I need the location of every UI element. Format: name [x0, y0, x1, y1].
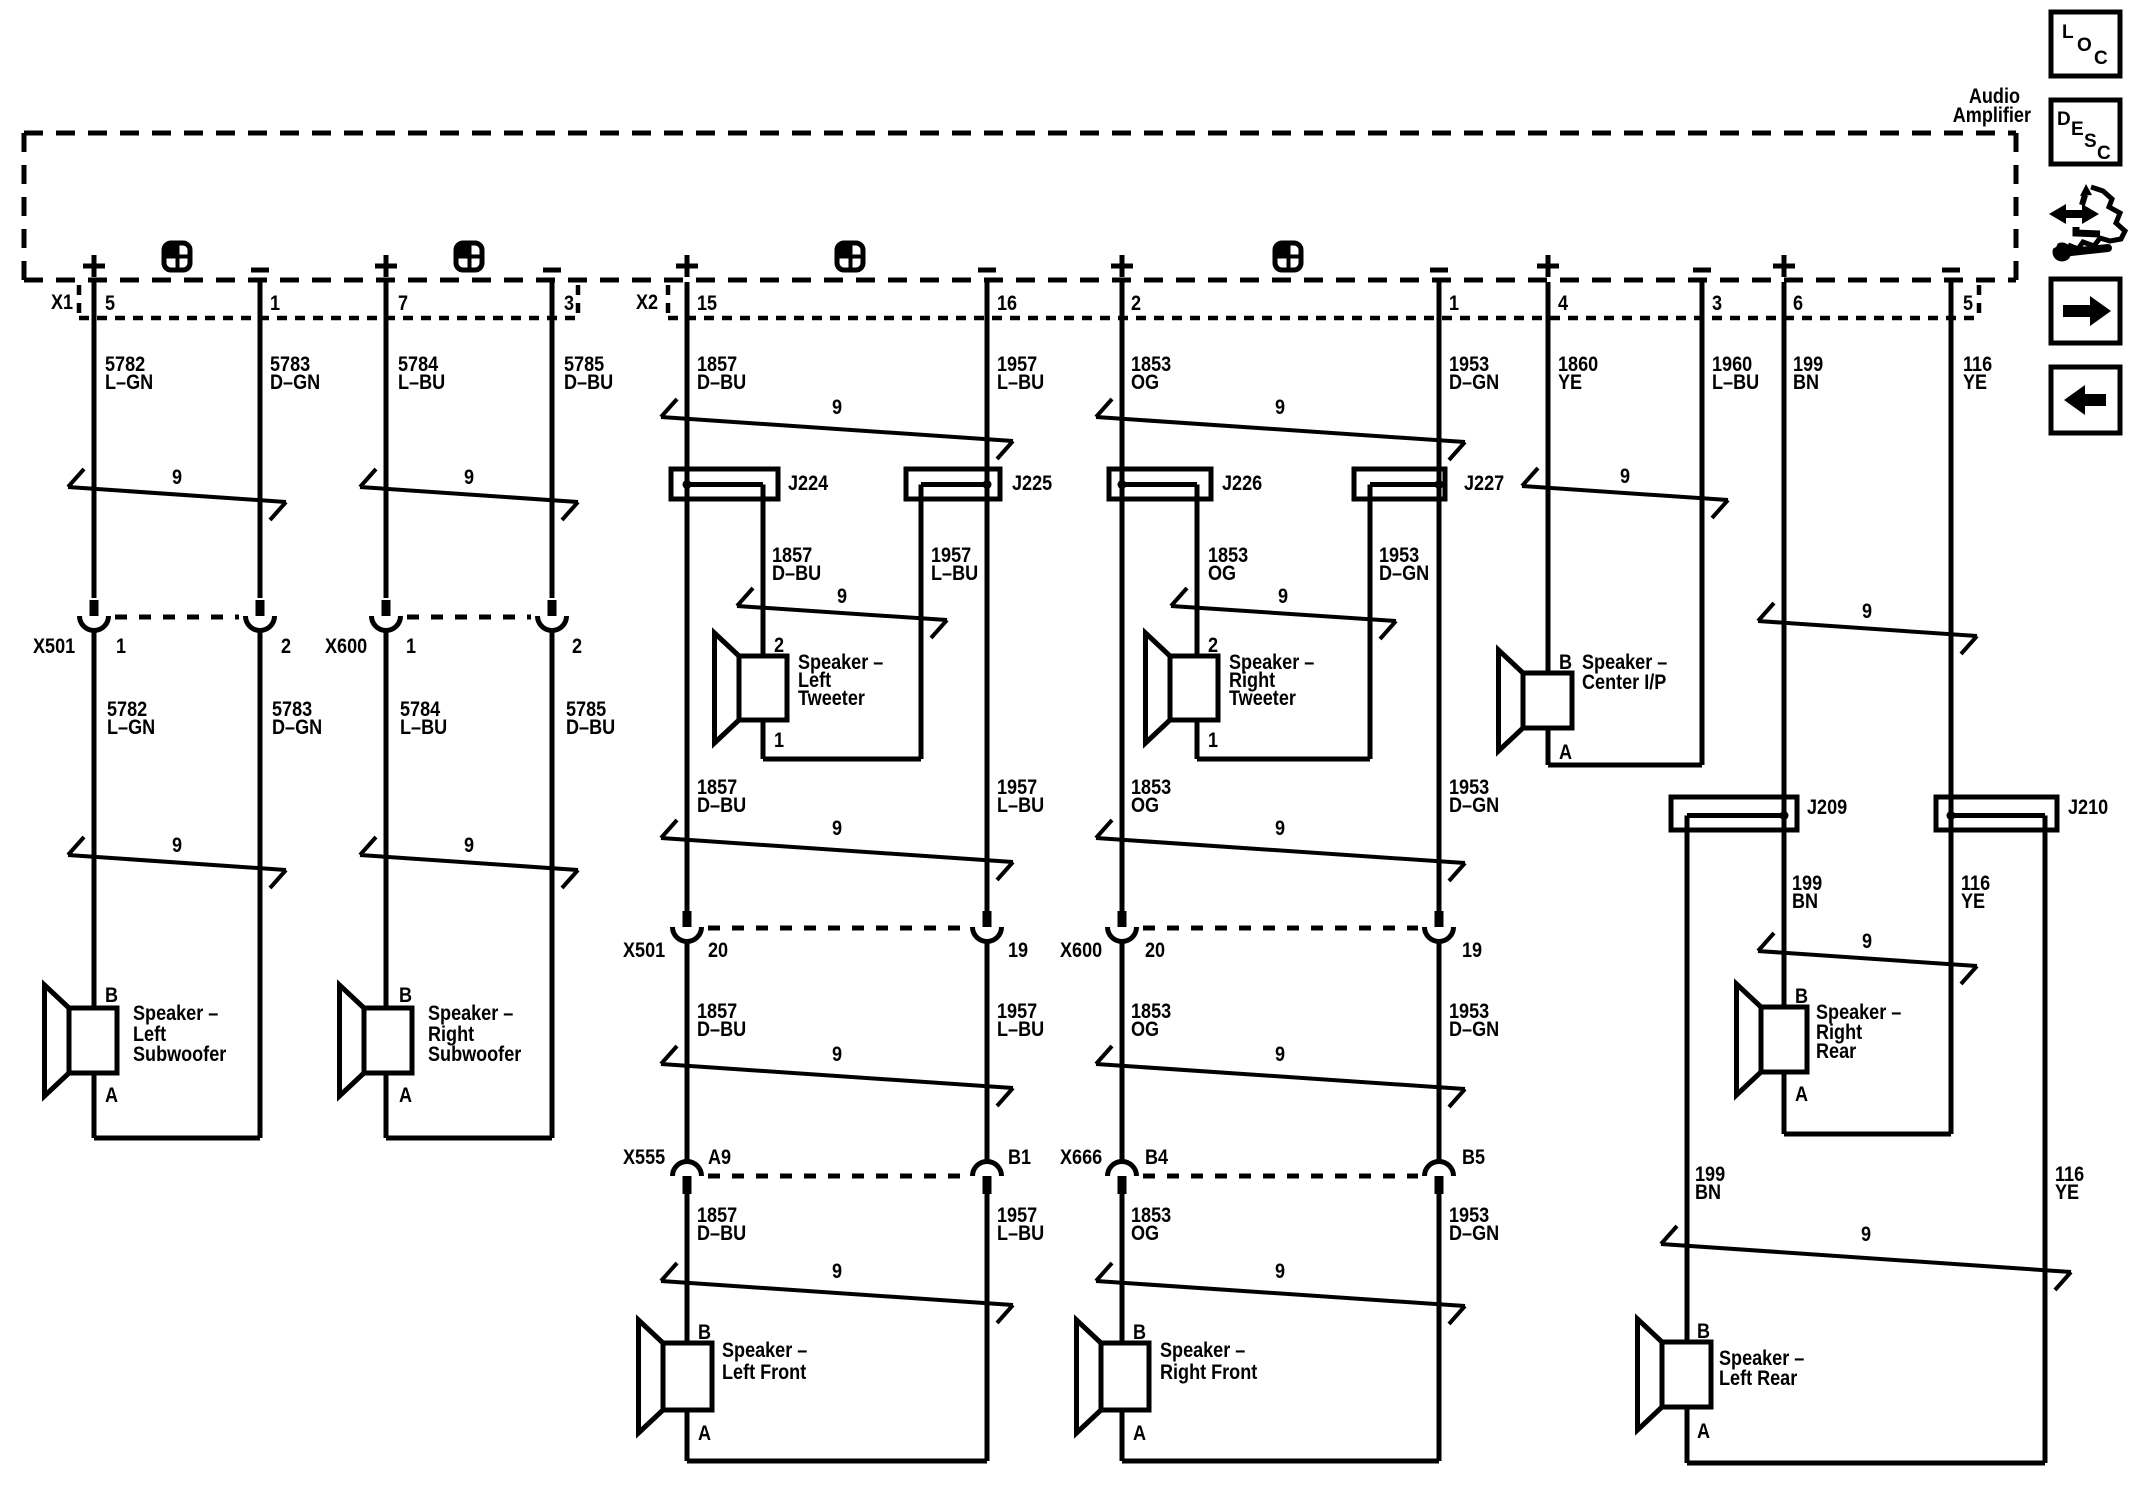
inline connector X600 pin 2 terminal: [538, 600, 567, 631]
amplifier channel grid symbol at x=469: [456, 243, 482, 270]
speaker - left subwoofer symbol: [45, 985, 118, 1096]
splice J209: [1671, 797, 1797, 830]
twisted pair circuit 9 (1853/1953 above X600): [1096, 820, 1465, 881]
svg-text:A: A: [399, 1084, 412, 1108]
wire from amplifier at x=687 (upper segment): [685, 282, 690, 470]
splice J226: [1109, 469, 1211, 499]
svg-text:9: 9: [1278, 585, 1288, 609]
twisted pair circuit 9 (199/116 upper): [1758, 603, 1977, 654]
right subwoofer terminal A wire down: [384, 1073, 389, 1138]
svg-text:9: 9: [1275, 1260, 1285, 1284]
svg-text:9: 9: [1275, 1043, 1285, 1067]
wire 116 segment through J210 to right rear speaker loop: [1949, 470, 1954, 1134]
inline connector X501 pin 20 terminal: [673, 911, 702, 941]
right front terminal A wire down: [1120, 1410, 1125, 1461]
wire 1960 segment to center speaker loop: [1700, 470, 1705, 765]
svg-text:YE: YE: [1558, 371, 1582, 395]
center speaker loop bottom wire: [1548, 763, 1702, 768]
amplifier output + mark at x=1784: [1773, 255, 1795, 277]
svg-text:L–BU: L–BU: [931, 562, 978, 586]
twisted pair circuit 9 (left tweeter): [737, 588, 947, 638]
svg-text:9: 9: [172, 834, 182, 858]
svg-text:B: B: [698, 1321, 711, 1345]
inline connector X600 pin 20 terminal: [1108, 911, 1137, 941]
wire 5783 to left subwoofer loop: [258, 630, 263, 1138]
inline connector X501 (front) dashed line: [708, 926, 966, 931]
connector X2 dotted strip: [668, 285, 1979, 318]
wire from amplifier at x=1122 (upper segment): [1120, 282, 1125, 470]
twisted pair circuit 9 (5782/5783 lower): [68, 837, 286, 888]
svg-text:9: 9: [832, 396, 842, 420]
right rear loop bottom wire: [1784, 1132, 1951, 1137]
wire from amplifier at x=1439 (upper segment): [1437, 282, 1442, 470]
branch wire 1857 from J224 to left tweeter pin 2: [761, 485, 766, 657]
svg-text:1: 1: [406, 635, 416, 659]
svg-text:20: 20: [708, 939, 728, 963]
wire 1957 to left front speaker loop: [985, 1194, 990, 1461]
twisted pair circuit 9 (5784/5785 lower): [360, 837, 578, 888]
left front terminal A wire down: [685, 1410, 690, 1461]
svg-text:B1: B1: [1008, 1146, 1031, 1170]
svg-text:9: 9: [1620, 465, 1630, 489]
inline connector X501 pin 1 terminal: [80, 600, 109, 631]
svg-text:2: 2: [1131, 292, 1141, 316]
svg-text:B4: B4: [1145, 1146, 1168, 1170]
inline connector X501 pin 19 terminal: [973, 911, 1002, 941]
svg-text:7: 7: [398, 292, 408, 316]
svg-text:Speaker –: Speaker –: [1160, 1339, 1245, 1363]
svg-text:Left Rear: Left Rear: [1719, 1367, 1797, 1391]
wire from amplifier at x=94 (upper segment): [92, 282, 97, 470]
svg-text:B: B: [1697, 1320, 1710, 1344]
svg-text:X2: X2: [636, 291, 658, 315]
svg-text:S: S: [2084, 131, 2097, 152]
svg-text:X1: X1: [51, 291, 73, 315]
svg-text:L–BU: L–BU: [1712, 371, 1759, 395]
branch wire 199 from J209 to left rear speaker B: [1685, 816, 1690, 1343]
amplifier output + mark at x=1122: [1111, 255, 1133, 277]
svg-text:D–GN: D–GN: [1449, 794, 1499, 818]
svg-text:J209: J209: [1807, 796, 1847, 820]
svg-text:C: C: [2097, 143, 2111, 164]
svg-text:Subwoofer: Subwoofer: [133, 1043, 227, 1067]
svg-text:X501: X501: [33, 635, 75, 659]
svg-text:BN: BN: [1695, 1181, 1721, 1205]
wire from amplifier at x=260 (upper segment): [258, 282, 263, 470]
inline connector X600 (subwoofer) dashed line: [407, 615, 531, 620]
speaker - right front symbol: [1077, 1320, 1150, 1433]
twisted pair circuit 9 (1860/1960): [1522, 468, 1728, 518]
back arrow navigation box: [2051, 367, 2120, 433]
svg-text:C: C: [2094, 48, 2108, 69]
inline connector X501 (subwoofer) dashed line: [115, 615, 239, 620]
svg-text:B: B: [1559, 651, 1572, 675]
svg-text:9: 9: [464, 466, 474, 490]
amplifier output + mark at x=94: [83, 255, 105, 277]
Audio Amplifier component dashed outline: [24, 133, 2016, 280]
svg-text:E: E: [2071, 119, 2084, 140]
wire 5782 to left subwoofer B: [92, 630, 97, 1008]
twisted pair circuit 9 (right tweeter): [1171, 588, 1396, 639]
svg-text:3: 3: [1712, 292, 1722, 316]
svg-text:9: 9: [832, 1260, 842, 1284]
svg-text:9: 9: [832, 817, 842, 841]
svg-text:B: B: [105, 984, 118, 1008]
svg-text:J224: J224: [788, 472, 828, 496]
wire from amplifier at x=1951 (upper segment): [1949, 282, 1954, 470]
splice J210: [1936, 797, 2057, 830]
amplifier channel grid symbol at x=850: [837, 243, 863, 270]
wire 5782 segment to X501: [92, 470, 97, 598]
svg-text:YE: YE: [1963, 371, 1987, 395]
svg-text:D–GN: D–GN: [272, 716, 322, 740]
twisted pair circuit 9 (1853/1953 upper): [1096, 399, 1465, 460]
wire 1857 to left front speaker B: [685, 1194, 690, 1343]
svg-text:Speaker –: Speaker –: [722, 1339, 807, 1363]
svg-text:Tweeter: Tweeter: [798, 687, 865, 711]
svg-text:Center I/P: Center I/P: [1582, 671, 1666, 695]
wire from amplifier at x=552 (upper segment): [550, 282, 555, 470]
wire from amplifier at x=1548 (upper segment): [1546, 282, 1551, 470]
svg-text:D: D: [2057, 109, 2071, 130]
wire 1953 segment through J227 to X600: [1437, 470, 1442, 912]
svg-text:B5: B5: [1462, 1146, 1485, 1170]
inline connector X666 pin B5 terminal: [1425, 1162, 1454, 1195]
left rear loop bottom wire: [1687, 1461, 2045, 1466]
wire from amplifier at x=1702 (upper segment): [1700, 282, 1705, 470]
svg-text:L: L: [2062, 22, 2074, 43]
twisted pair circuit 9 (right front): [1096, 1263, 1465, 1324]
speaker - center I/P symbol: [1499, 650, 1573, 751]
amplifier output − mark at x=552: [543, 268, 561, 273]
branch wire 116 from J210 to left rear speaker loop: [2043, 816, 2048, 1464]
amplifier output + mark at x=1548: [1537, 255, 1559, 277]
wire 5783 segment to X501: [258, 470, 263, 598]
svg-text:16: 16: [997, 292, 1017, 316]
wire 1853 between X600 and X666: [1120, 941, 1125, 1162]
svg-text:B: B: [399, 984, 412, 1008]
svg-text:YE: YE: [2055, 1181, 2079, 1205]
svg-text:2: 2: [281, 635, 291, 659]
amplifier channel grid symbol at x=177: [164, 243, 190, 270]
twisted pair circuit 9 (1857/1957 upper): [661, 399, 1013, 459]
wire 1853 segment through J226 to X600: [1120, 470, 1125, 912]
wire 1957 between X501 and X555: [985, 941, 990, 1162]
svg-text:BN: BN: [1792, 890, 1818, 914]
amplifier output − mark at x=1951: [1942, 268, 1960, 273]
inline connector X501 pin 2 terminal: [246, 600, 275, 631]
svg-text:1: 1: [1449, 292, 1459, 316]
svg-text:9: 9: [1861, 1223, 1871, 1247]
svg-text:OG: OG: [1131, 794, 1159, 818]
svg-text:9: 9: [1862, 930, 1872, 954]
right front loop bottom wire: [1122, 1459, 1439, 1464]
wire 5785 to right subwoofer loop: [550, 630, 555, 1138]
splice J225: [906, 469, 1000, 499]
svg-text:X555: X555: [623, 1146, 665, 1170]
svg-text:J227: J227: [1464, 472, 1504, 496]
svg-text:X600: X600: [325, 635, 367, 659]
svg-text:X666: X666: [1060, 1146, 1102, 1170]
connector X1 dotted strip: [79, 285, 578, 318]
inline connector X555 pin B1 terminal: [973, 1162, 1002, 1195]
twisted pair circuit 9 (1857/1957 above X501): [661, 820, 1013, 880]
inline connector X555 pin A9 terminal: [673, 1162, 702, 1195]
svg-text:1: 1: [116, 635, 126, 659]
svg-text:L–BU: L–BU: [997, 371, 1044, 395]
svg-text:O: O: [2077, 35, 2092, 56]
svg-text:A: A: [1559, 741, 1572, 765]
svg-text:D–GN: D–GN: [1449, 1018, 1499, 1042]
svg-text:19: 19: [1008, 939, 1028, 963]
svg-text:L–BU: L–BU: [997, 1018, 1044, 1042]
svg-text:A: A: [698, 1422, 711, 1446]
speaker - right tweeter symbol: [1146, 633, 1219, 743]
svg-text:J226: J226: [1222, 472, 1262, 496]
wire from amplifier at x=987 (upper segment): [985, 282, 990, 470]
left tweeter loop bottom wire: [763, 757, 921, 762]
svg-text:OG: OG: [1131, 371, 1159, 395]
branch wire 1853 from J226 to right tweeter pin 2: [1195, 485, 1200, 657]
amplifier output + mark at x=386: [375, 255, 397, 277]
svg-text:A: A: [1697, 1420, 1710, 1444]
right tweeter pin 1 wire down: [1195, 720, 1200, 759]
svg-text:3: 3: [564, 292, 574, 316]
svg-text:Right Front: Right Front: [1160, 1361, 1258, 1385]
svg-text:B: B: [1133, 1321, 1146, 1345]
svg-text:Left Front: Left Front: [722, 1361, 807, 1385]
svg-text:9: 9: [1862, 600, 1872, 624]
amplifier output − mark at x=260: [251, 268, 269, 273]
svg-text:Subwoofer: Subwoofer: [428, 1043, 522, 1067]
svg-text:L–GN: L–GN: [107, 716, 155, 740]
wire 1853 to right front speaker B: [1120, 1194, 1125, 1343]
svg-text:A9: A9: [708, 1146, 731, 1170]
twisted pair circuit 9 (left front): [661, 1263, 1013, 1323]
svg-text:D–GN: D–GN: [1379, 562, 1429, 586]
left rear terminal A wire down: [1685, 1407, 1690, 1463]
speaker - left tweeter symbol: [715, 633, 788, 743]
svg-text:9: 9: [464, 834, 474, 858]
svg-text:D–BU: D–BU: [697, 1018, 746, 1042]
amplifier channel grid symbol at x=1288: [1275, 243, 1301, 270]
svg-text:L–GN: L–GN: [105, 371, 153, 395]
amplifier output − mark at x=1439: [1430, 268, 1448, 273]
svg-text:9: 9: [172, 466, 182, 490]
connector repair / double-arrow wrench icon: [2042, 184, 2125, 262]
wire 5784 segment to X600: [384, 470, 389, 598]
svg-text:OG: OG: [1131, 1222, 1159, 1246]
svg-text:A: A: [1133, 1422, 1146, 1446]
svg-text:D–BU: D–BU: [772, 562, 821, 586]
splice J227: [1354, 469, 1445, 499]
svg-text:D–BU: D–BU: [697, 1222, 746, 1246]
speaker - left rear symbol: [1638, 1319, 1712, 1430]
svg-text:D–BU: D–BU: [564, 371, 613, 395]
wire 1953 to right front speaker loop: [1437, 1194, 1442, 1461]
amplifier output + mark at x=687: [676, 255, 698, 277]
svg-text:Tweeter: Tweeter: [1229, 687, 1296, 711]
svg-text:L–BU: L–BU: [997, 794, 1044, 818]
speaker - left front symbol: [639, 1320, 713, 1433]
svg-text:L–BU: L–BU: [997, 1222, 1044, 1246]
svg-text:B: B: [1795, 985, 1808, 1009]
inline connector X600 pin 19 terminal: [1425, 911, 1454, 941]
svg-text:6: 6: [1793, 292, 1803, 316]
LOC navigation icon box: [2051, 12, 2120, 76]
inline connector X666 pin B4 terminal: [1108, 1162, 1137, 1195]
wire from amplifier at x=1784 (upper segment): [1782, 282, 1787, 470]
right rear terminal A wire down: [1782, 1072, 1787, 1134]
svg-text:20: 20: [1145, 939, 1165, 963]
svg-text:1: 1: [1208, 729, 1218, 753]
svg-text:J225: J225: [1012, 472, 1052, 496]
left subwoofer loop bottom wire: [94, 1136, 260, 1141]
amplifier output − mark at x=1702: [1693, 268, 1711, 273]
right tweeter loop bottom wire: [1197, 757, 1370, 762]
wire 5784 to right subwoofer B: [384, 630, 389, 1008]
svg-text:D–BU: D–BU: [697, 794, 746, 818]
wire 1857 between X501 and X555: [685, 941, 690, 1162]
svg-text:D–GN: D–GN: [1449, 371, 1499, 395]
svg-text:OG: OG: [1131, 1018, 1159, 1042]
wire 199 segment through J209 to right rear speaker: [1782, 470, 1787, 1007]
svg-text:2: 2: [572, 635, 582, 659]
twisted pair circuit 9 (1853/1953 below X600): [1096, 1046, 1465, 1107]
svg-text:YE: YE: [1961, 890, 1985, 914]
svg-text:9: 9: [837, 585, 847, 609]
svg-text:2: 2: [774, 634, 784, 658]
svg-text:5: 5: [105, 292, 115, 316]
svg-text:A: A: [105, 1084, 118, 1108]
inline connector X666 dashed line: [1143, 1174, 1418, 1179]
amplifier output − mark at x=987: [978, 268, 996, 273]
svg-text:L–BU: L–BU: [400, 716, 447, 740]
wire 1857 segment through J224 to X501: [685, 470, 690, 912]
speaker - right rear symbol: [1737, 984, 1808, 1095]
twisted pair circuit 9 (5782/5783): [68, 469, 286, 520]
svg-text:Amplifier: Amplifier: [1953, 104, 2031, 128]
left front loop bottom wire: [687, 1459, 987, 1464]
svg-text:BN: BN: [1793, 371, 1819, 395]
svg-text:Rear: Rear: [1816, 1040, 1856, 1064]
inline connector X600 (front) dashed line: [1143, 926, 1418, 931]
inline connector X555 dashed line: [708, 1174, 966, 1179]
wire 1860 segment to center speaker: [1546, 470, 1551, 673]
twisted pair circuit 9 (5784/5785): [360, 469, 578, 520]
center speaker terminal A wire down: [1546, 728, 1551, 765]
right subwoofer loop bottom wire: [386, 1136, 552, 1141]
svg-text:A: A: [1795, 1083, 1808, 1107]
svg-text:J210: J210: [2068, 796, 2108, 820]
svg-text:D–GN: D–GN: [1449, 1222, 1499, 1246]
speaker - right subwoofer symbol: [340, 985, 413, 1096]
left tweeter pin 1 wire down: [761, 720, 766, 759]
twisted pair circuit 9 (right rear): [1758, 933, 1977, 984]
wire 1957 segment through J225 to X501: [985, 470, 990, 912]
svg-text:D–BU: D–BU: [566, 716, 615, 740]
svg-text:4: 4: [1558, 292, 1568, 316]
svg-text:9: 9: [832, 1043, 842, 1067]
svg-text:2: 2: [1208, 634, 1218, 658]
svg-text:19: 19: [1462, 939, 1482, 963]
twisted pair circuit 9 (1857/1957 below X501): [661, 1046, 1013, 1106]
svg-text:OG: OG: [1208, 562, 1236, 586]
wire 5785 segment to X600: [550, 470, 555, 598]
svg-text:5: 5: [1963, 292, 1973, 316]
splice J224: [671, 469, 778, 499]
branch wire 1953 from J227 to right tweeter loop: [1368, 485, 1373, 760]
svg-text:9: 9: [1275, 396, 1285, 420]
svg-text:X600: X600: [1060, 939, 1102, 963]
inline connector X600 pin 1 terminal: [372, 600, 401, 631]
branch wire 1957 from J225 to left tweeter loop: [919, 485, 924, 760]
svg-text:D–GN: D–GN: [270, 371, 320, 395]
svg-text:15: 15: [697, 292, 717, 316]
svg-text:L–BU: L–BU: [398, 371, 445, 395]
svg-text:1: 1: [774, 729, 784, 753]
svg-text:1: 1: [270, 292, 280, 316]
svg-text:X501: X501: [623, 939, 665, 963]
twisted pair circuit 9 (left rear): [1661, 1226, 2071, 1290]
wire 1953 between X600 and X666: [1437, 941, 1442, 1162]
svg-text:D–BU: D–BU: [697, 371, 746, 395]
forward arrow navigation box: [2051, 279, 2120, 343]
svg-text:9: 9: [1275, 817, 1285, 841]
wire from amplifier at x=386 (upper segment): [384, 282, 389, 470]
DESC navigation icon box: [2051, 100, 2120, 164]
left subwoofer terminal A wire down: [92, 1073, 97, 1138]
